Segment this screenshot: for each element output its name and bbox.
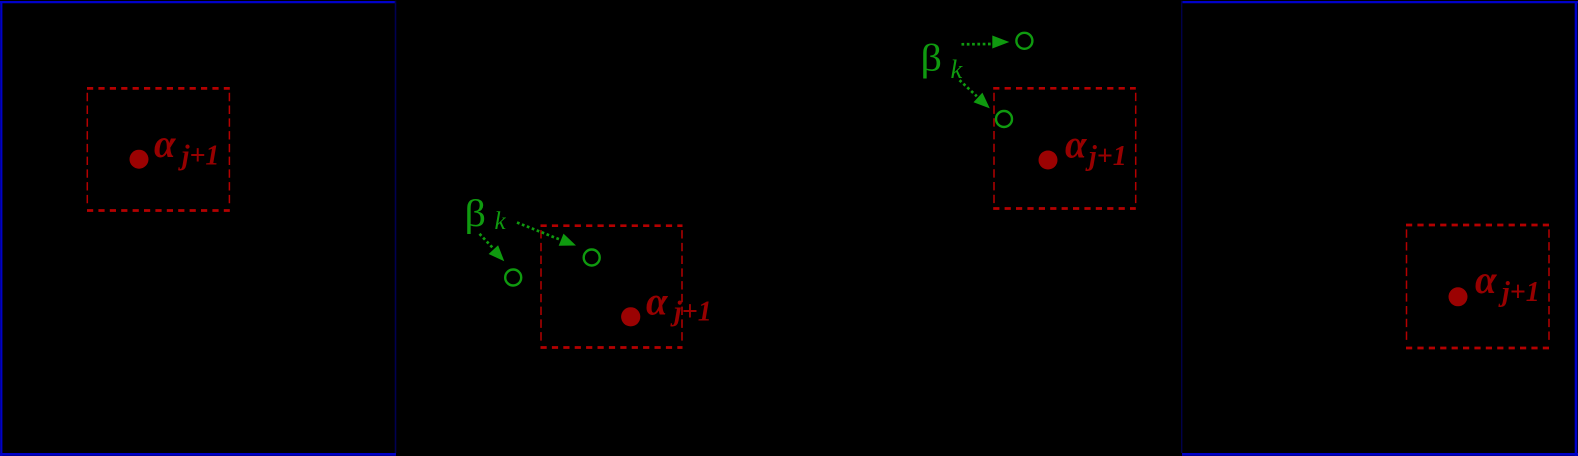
label beta_k (A) [465,193,507,235]
red dot 1 [130,150,149,169]
svg-text:β: β [921,38,943,80]
svg-text:α: α [1475,257,1497,302]
label beta_k (B) [921,38,964,84]
green arrow B2 (beta to lower circle) [960,80,990,108]
svg-text:j+1: j+1 [1085,141,1127,172]
label alpha_j+1 (3) [1065,122,1127,172]
svg-text:k: k [951,54,964,84]
left edge (dark navy) [1181,1,1183,453]
red dashed box 4 (right panel) [1406,225,1550,348]
green arrow B1 (beta to top circle) [962,36,1010,49]
bottom edge [0,453,396,456]
svg-text:j+1: j+1 [178,141,220,172]
top edge [0,1,395,3]
green arrow A2 (beta to circle 2) [517,223,576,246]
svg-text:β: β [465,193,487,235]
right panel frame (blue) [1182,1,1578,456]
svg-text:α: α [1065,122,1087,167]
red dot 3 [1039,151,1058,170]
green circle B2 [996,111,1012,127]
svg-text:k: k [495,208,507,235]
left panel frame (blue) [0,1,396,456]
green circle A2 [584,250,600,266]
top edge [1183,1,1578,3]
svg-text:j+1: j+1 [670,297,712,328]
right edge [1575,1,1578,456]
bottom edge [1182,453,1578,456]
right edge (dark navy) [395,1,397,453]
svg-text:j+1: j+1 [1498,277,1540,308]
label alpha_j+1 (2) [646,279,712,328]
left edge [0,1,2,456]
label alpha_j+1 (1) [154,121,219,171]
label alpha_j+1 (4) [1475,257,1540,308]
red dashed box 1 (left panel) [87,88,230,210]
red dot 4 [1449,287,1468,306]
green arrow A1 (beta to circle 1) [480,234,505,261]
green circle B1 [1016,33,1032,49]
svg-text:α: α [154,121,176,166]
red dashed box 3 (middle-right) [993,88,1136,208]
green circle A1 [505,270,521,286]
red dot 2 [621,307,640,326]
red dashed box 2 (middle-left) [541,226,683,348]
svg-text:α: α [646,279,668,324]
